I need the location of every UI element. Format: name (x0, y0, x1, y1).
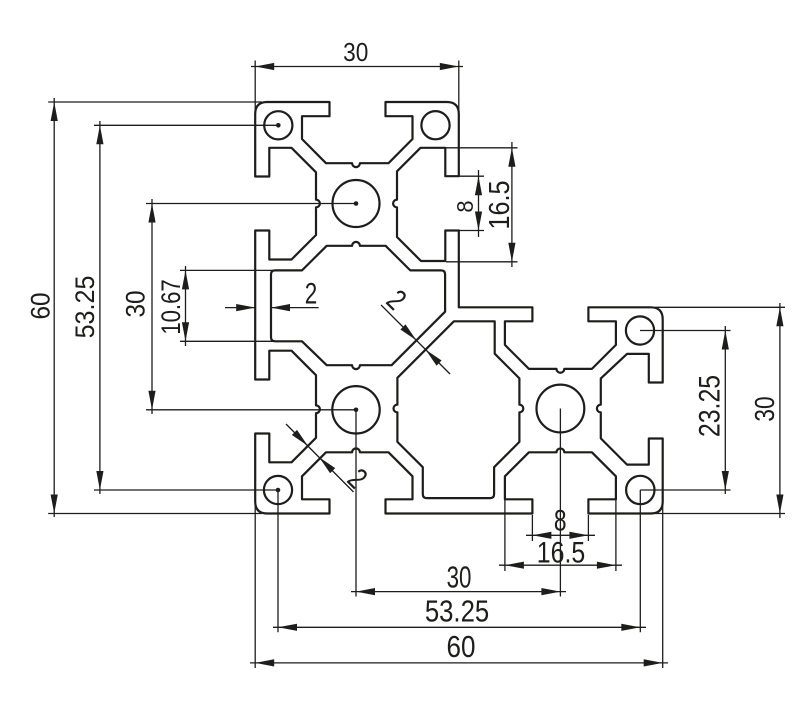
dimension 10.67 left: label (157, 279, 187, 334)
center mark bore B (354, 408, 359, 413)
dimension 30 left: label (121, 290, 150, 317)
dimension 60 bottom: dimension line (250, 662, 668, 664)
center mark screw hole bottom-left (276, 488, 281, 493)
svg-text:53.25: 53.25 (425, 594, 489, 629)
dimension 53.25 bottom: dimension line (273, 626, 646, 628)
dimension 8 bottom: extension lines (531, 515, 533, 541)
center bore cell C (537, 385, 585, 433)
svg-text:10.67: 10.67 (157, 279, 187, 334)
dimension 30 left: extension lines to bore centers (146, 203, 356, 205)
svg-text:30: 30 (343, 38, 368, 67)
dimension 2 wall thickness left face: leader and arrows (225, 307, 255, 309)
dimension 16.5 bottom: extension lines (504, 500, 506, 571)
dimension 60 bottom: label (447, 630, 476, 665)
dimension 10.67 left: extension lines (180, 269, 302, 271)
corner screw hole bottom-right (626, 476, 654, 504)
outer profile contour of L-shaped extrusion (255, 102, 663, 514)
dimension 16.5 bottom: label (537, 535, 585, 569)
dimension 23.25 right: dimension line (724, 326, 726, 494)
dimension 30 top: dimension line (251, 66, 463, 68)
dimension 16.5: label (482, 180, 515, 229)
dimension 53.25 bottom: extension lines from screw hole centers (277, 490, 279, 632)
dimension 53.25 left: label (69, 276, 100, 339)
dimension 30 bottom: extension lines from bore centers (355, 410, 357, 597)
dimension 16.5: extension lines (446, 147, 518, 149)
dimension 60 left: extension lines (48, 101, 262, 103)
dimension 8: label (452, 201, 478, 213)
svg-text:23.25: 23.25 (692, 375, 726, 437)
dimension 30 right: dimension line (779, 303, 781, 518)
svg-text:60: 60 (447, 630, 476, 665)
corner screw hole top-left (264, 111, 292, 139)
dimension 23.25 right: label (692, 375, 726, 437)
dimension 30 right: label (750, 396, 781, 421)
dimension 8: extension lines (459, 175, 484, 177)
dimension 30 top: extension lines (254, 61, 256, 117)
svg-text:16.5: 16.5 (482, 180, 515, 229)
dimension 23.25 right: extension lines (640, 330, 731, 332)
dimension 8 slot opening cell A: dimension line (478, 170, 480, 237)
dimension 60 bottom: extension lines (254, 499, 256, 668)
svg-text:30: 30 (121, 290, 150, 317)
center bore cell B (332, 386, 379, 433)
corner screw hole bottom-left (264, 476, 292, 504)
dimension 53.25 bottom: label (425, 594, 489, 629)
center mark bore A (354, 201, 359, 206)
dimension 16.5 bottom: dimension line (499, 564, 622, 566)
dimension 10.67 left: dimension line (185, 266, 187, 346)
svg-text:2: 2 (305, 277, 318, 311)
dimension 53.25 left: extension lines (94, 124, 278, 126)
internal cavity between cell A and cell B (271, 242, 445, 369)
dimension 2 diagonal web lower: label (341, 462, 374, 495)
dimension 8 bottom: label (554, 504, 567, 538)
center bore cell A (333, 180, 380, 227)
central internal cavity at inner corner (394, 321, 524, 498)
dimension 30 right: extension lines (655, 306, 785, 308)
dimension 2 diagonal web upper: label (380, 283, 413, 316)
dimension 30 top: label (343, 38, 368, 67)
center mark screw hole top-left (276, 123, 281, 128)
dimension 16.5 slot width cell A: dimension line (511, 142, 513, 267)
svg-text:53.25: 53.25 (69, 276, 100, 339)
svg-text:30: 30 (750, 396, 781, 421)
svg-text:8: 8 (452, 201, 478, 213)
dimension 2 left face: label (305, 277, 318, 311)
dimension 60 left: label (26, 292, 55, 319)
dimension 2 diagonal web lower: leader and arrows (286, 424, 354, 492)
corner screw hole top-right of cell A (421, 111, 449, 139)
svg-text:30: 30 (447, 560, 472, 594)
svg-text:60: 60 (26, 292, 55, 319)
dimension 60 left: dimension line (53, 98, 55, 517)
dimension 53.25 left: dimension line (99, 121, 101, 494)
dimension 30 left: dimension line (151, 199, 153, 414)
dimension 30 bottom: label (447, 560, 472, 594)
corner screw hole top-right of cell C (626, 316, 654, 344)
dimension 2 diagonal web upper: leader and arrows (381, 305, 450, 374)
dimension 8 slot opening cell C bottom: dimension line (526, 534, 595, 536)
dimension 30 bottom: dimension line (351, 591, 566, 593)
